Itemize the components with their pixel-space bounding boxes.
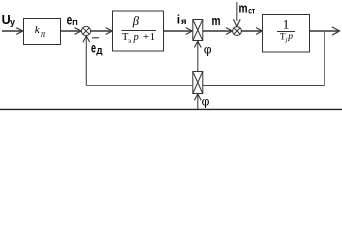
wire phi riser between multipliers: [194, 41, 201, 71]
svg-text:i: i: [177, 12, 180, 26]
node U_y label: [2, 13, 15, 27]
block k_p (amplifier): [24, 19, 61, 45]
svg-text:э: э: [128, 36, 131, 45]
node e_D label: [91, 41, 103, 57]
svg-text:p: p: [133, 32, 139, 43]
svg-text:m: m: [212, 13, 221, 28]
block 1/(Tj p): [263, 15, 310, 53]
svg-text:Д: Д: [96, 47, 103, 56]
svg-text:П: П: [72, 18, 77, 27]
wire beta to mult1: [164, 28, 193, 35]
svg-text:φ: φ: [202, 95, 210, 109]
wire m_st input: [233, 2, 240, 26]
multiplier 2 (back-EMF product): [193, 72, 203, 94]
rule at page bottom: [0, 108, 342, 110]
node e_P label: [67, 12, 78, 27]
minus sign at sum1: [92, 37, 99, 39]
svg-text:j: j: [285, 36, 288, 43]
node m_st label: [239, 1, 256, 16]
summing junction 1: [81, 26, 90, 35]
wire output: [310, 27, 340, 35]
summing junction 2: [233, 27, 242, 36]
node i_ya label: [177, 12, 187, 26]
svg-text:я: я: [181, 17, 187, 26]
block beta/(Te p+1): [113, 11, 164, 51]
wire feedback tap down: [324, 31, 326, 86]
svg-text:β: β: [132, 14, 140, 28]
wire sum1 to block beta: [91, 28, 113, 35]
svg-text:π: π: [41, 29, 46, 39]
wire k_p to sum1: [61, 28, 82, 35]
svg-text:1: 1: [150, 32, 155, 43]
svg-text:m: m: [239, 1, 248, 16]
wire input: [2, 28, 23, 35]
svg-text:у: у: [10, 17, 15, 27]
wire phi input from below: [194, 94, 201, 109]
svg-text:ст: ст: [248, 6, 255, 16]
wire sum2 to block 1/Tjp: [241, 28, 262, 35]
wire e_D feedback left segment: [86, 85, 193, 87]
multiplier 1 (torque product): [193, 20, 203, 41]
svg-text:p: p: [287, 32, 293, 42]
wire feedback bottom right segment: [203, 85, 325, 87]
svg-text:φ: φ: [204, 43, 212, 57]
wire mult1 to sum2: [203, 28, 233, 35]
wire e_D feedback riser: [83, 36, 90, 86]
svg-text:1: 1: [283, 16, 290, 31]
svg-text:+: +: [143, 32, 149, 43]
